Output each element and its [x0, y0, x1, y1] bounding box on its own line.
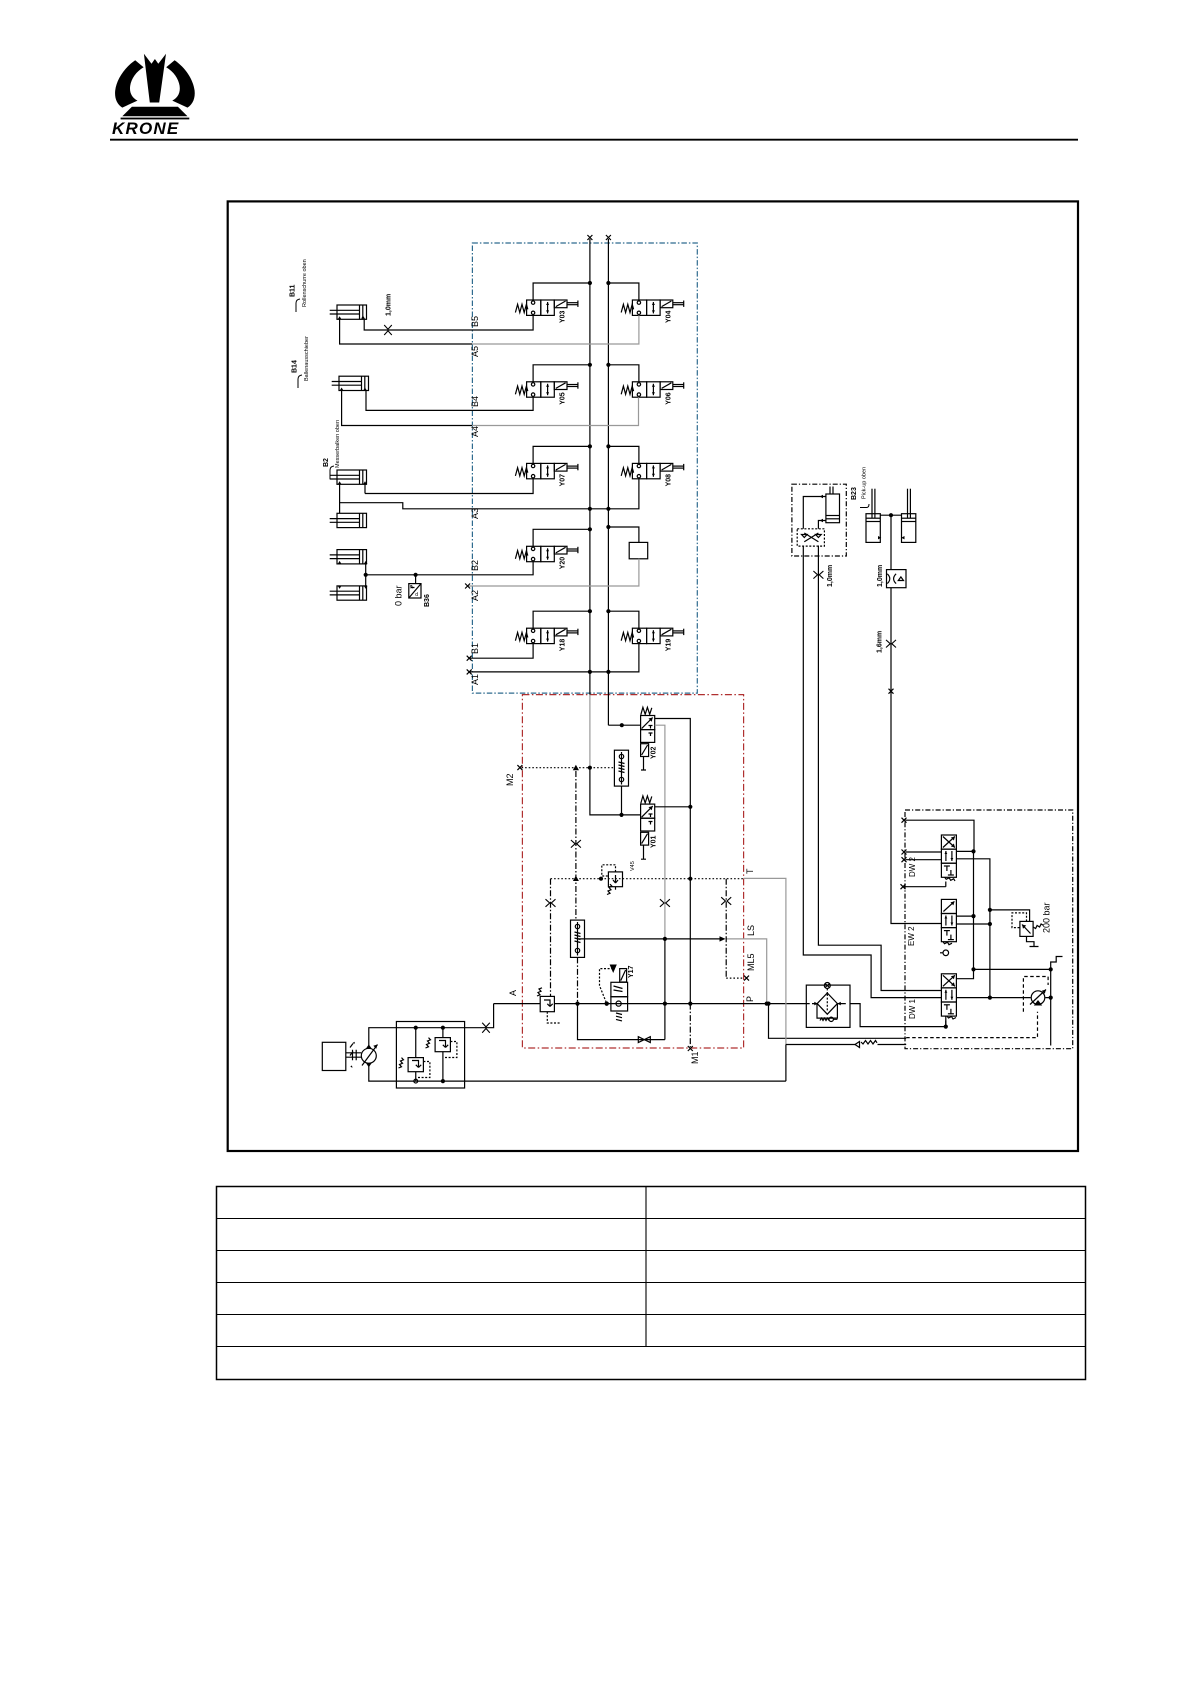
port ML5 (plugged) — [726, 977, 744, 979]
pump (variable displacement) — [361, 1045, 377, 1066]
svg-text:A1: A1 — [470, 674, 480, 685]
svg-text:200 bar: 200 bar — [1042, 902, 1052, 933]
port M1 (dash-dot, plugged) — [689, 1004, 691, 1047]
cylinder B23 (inside dash-dot box) — [826, 487, 840, 523]
relief valve RV2 — [426, 1028, 457, 1081]
orifice on M2 pilot — [571, 840, 581, 848]
svg-text:1,0mm: 1,0mm — [386, 294, 393, 316]
svg-text:Y19: Y19 — [665, 639, 672, 652]
wires B23 cylinder to drop lines — [803, 497, 941, 998]
svg-text:B4: B4 — [470, 396, 480, 407]
DW1 right wires to hand pump / tank — [956, 969, 1051, 1045]
wire A2 (grey) — [468, 559, 639, 586]
black dotted control box right — [905, 810, 1073, 1049]
red dash-dot valve block box — [522, 695, 743, 1048]
port labels on blue box edge — [470, 316, 480, 685]
measuring point on pick-up line — [889, 689, 894, 694]
relief valve RV1 — [399, 1028, 430, 1083]
svg-text:A2: A2 — [470, 590, 480, 601]
wire B2 — [366, 562, 533, 575]
wires knife cylinder pair — [340, 484, 365, 527]
DW2 spring — [945, 877, 955, 886]
svg-text:Y06: Y06 — [665, 392, 672, 405]
svg-text:Y18: Y18 — [560, 639, 567, 652]
cylinder knife bank 2 — [330, 513, 367, 527]
orifice 1,6mm on pick-up line — [886, 640, 896, 648]
svg-text:1,6mm: 1,6mm — [877, 631, 884, 653]
pick-up cylinder right — [902, 489, 916, 543]
LS return drop (black below P) — [769, 1004, 907, 1039]
pressure sensor B36 — [409, 575, 421, 598]
svg-text:Ballenausschieber: Ballenausschieber — [304, 336, 310, 381]
cylinder twine 2 — [330, 586, 367, 600]
relief block box — [396, 1022, 464, 1089]
valve Y06 — [621, 382, 684, 397]
cross check valves in B23 box — [797, 529, 824, 546]
svg-text:B2: B2 — [323, 458, 330, 467]
tank loop with shutoff under P — [578, 1004, 665, 1040]
svg-text:V45: V45 — [630, 861, 636, 871]
DW2 right side wires — [956, 851, 990, 997]
orifice on pump line — [482, 1023, 490, 1033]
shaft coupling — [346, 1044, 362, 1061]
P line into filter and on to DW1 — [850, 1004, 946, 1027]
svg-text:M2: M2 — [505, 773, 515, 786]
orifice B5 1,0mm — [384, 325, 392, 335]
EW2 right wires — [956, 916, 990, 924]
wire Y07 top — [533, 446, 639, 463]
svg-text:M1: M1 — [690, 1051, 700, 1064]
inline check valve on T return — [855, 1041, 877, 1048]
cylinder bale ejector (B4/A4) — [332, 376, 369, 390]
valve Y17 (unloading seat valve) — [600, 965, 628, 1021]
wire Y01 top-right — [655, 806, 691, 808]
wire Y02 top-right to M1 riser — [655, 719, 691, 1004]
svg-text:Y05: Y05 — [560, 392, 567, 405]
svg-text:Y03: Y03 — [560, 310, 567, 323]
wire Y03 top — [533, 283, 639, 300]
blank plate right of Y20 — [629, 542, 648, 558]
B23 dash-dot box — [792, 484, 846, 556]
svg-text:Y17: Y17 — [628, 965, 635, 978]
svg-text:Rollenschurre oben: Rollenschurre oben — [302, 259, 308, 307]
wire A5 (grey to Y04) — [340, 315, 639, 344]
wire A1 — [469, 644, 639, 672]
pump pressure line up — [369, 1004, 494, 1049]
svg-text:B23: B23 — [851, 487, 858, 500]
wire A4 (grey to Y06) — [342, 391, 639, 426]
sensor B2 — [330, 466, 334, 479]
sensor B23 — [860, 504, 869, 508]
svg-text:Y04: Y04 — [665, 310, 672, 323]
svg-text:LS: LS — [746, 925, 756, 936]
svg-text:EW 2: EW 2 — [907, 926, 916, 946]
pilot line T-LS (dash-dot with orifice) — [725, 879, 727, 978]
valve DW2 — [941, 835, 956, 877]
port M2 (plugged, pilot line) — [517, 765, 522, 770]
orifice 1,0mm on left drop — [813, 571, 823, 579]
T return line (grey) with check valve — [744, 878, 907, 1081]
cylinder roller chute (B5/A5) — [330, 305, 367, 319]
outer diagram border — [228, 201, 1078, 1151]
filter F1 (check/orifice cartridge) — [614, 750, 628, 815]
svg-text:A: A — [508, 990, 518, 996]
svg-text:Y02: Y02 — [651, 746, 658, 759]
valve Y20 — [515, 546, 578, 561]
bus2 continuation to Y02 — [608, 724, 640, 726]
KRONE logo crown — [112, 54, 195, 138]
svg-text:d: d — [415, 592, 418, 598]
wire Y18 top — [533, 611, 639, 628]
svg-text:0 bar: 0 bar — [394, 585, 404, 606]
svg-text:Y01: Y01 — [651, 835, 658, 848]
svg-text:Y07: Y07 — [560, 474, 567, 487]
svg-text:B2: B2 — [470, 560, 480, 571]
svg-text:A4: A4 — [470, 426, 480, 437]
svg-text:B5: B5 — [470, 316, 480, 327]
wire Y02 lower-right (grey LS drop) — [655, 725, 665, 1003]
wire pick-up cylinders common — [880, 514, 901, 516]
filter F2 (check/orifice cartridge) — [571, 920, 585, 1004]
pump return line — [369, 1063, 786, 1081]
pilot line M2 down to filter F2 — [575, 771, 577, 920]
svg-text:DW 1: DW 1 — [908, 998, 917, 1019]
valve Y01 (pilot operated seat valve) — [641, 796, 655, 859]
blue dash-dot manifold box — [472, 243, 697, 693]
svg-text:A3: A3 — [470, 508, 480, 519]
wire Y05 top — [533, 365, 639, 382]
wire B4 — [366, 391, 533, 411]
valve Y19 — [621, 628, 684, 643]
svg-text:KRONE: KRONE — [112, 119, 179, 138]
valve DW1 — [941, 974, 956, 1016]
svg-text:B36: B36 — [424, 594, 431, 607]
wire B1 — [469, 644, 533, 659]
bus1 continuation (grey then black) to Y01 — [590, 695, 641, 815]
valve Y05 — [515, 382, 578, 397]
EW2 spring + manual override — [940, 942, 952, 956]
header rule — [110, 139, 1078, 141]
P line through block — [494, 1003, 810, 1005]
svg-text:A5: A5 — [470, 346, 480, 357]
hand pump drain (dashed) — [906, 977, 1048, 1038]
pick-up drop line with bypass check — [887, 515, 942, 923]
wire Y20 top — [533, 527, 639, 546]
LS line — [578, 939, 767, 1004]
plug X bus1 top — [587, 235, 592, 240]
wire A3 — [340, 479, 639, 509]
bus line P2 — [607, 239, 609, 725]
svg-text:n: n — [410, 585, 413, 591]
svg-text:B1: B1 — [470, 643, 480, 654]
svg-text:Messerbalken oben: Messerbalken oben — [335, 420, 341, 468]
wire B5 — [364, 315, 533, 330]
cylinder knife bank 1 — [330, 470, 367, 484]
pilot line to check valve CV1 — [550, 879, 552, 997]
plug X bus2 top — [606, 235, 611, 240]
svg-text:ML5: ML5 — [746, 953, 756, 971]
tank connection symbol — [1051, 957, 1063, 970]
valve EW2 — [941, 899, 956, 941]
hand pump — [1030, 990, 1046, 1005]
orifice on Y02 drain line — [660, 899, 670, 907]
svg-text:B11: B11 — [290, 284, 297, 297]
DW2 work port stubs (plugged) — [904, 820, 974, 887]
svg-text:B14: B14 — [292, 360, 299, 373]
sensor B14 — [298, 375, 302, 388]
valve Y18 — [515, 628, 578, 643]
200 bar relief valve — [990, 910, 1043, 947]
svg-text:Pick-up oben: Pick-up oben — [862, 467, 868, 499]
svg-text:T: T — [745, 868, 755, 874]
relief valve V45 — [602, 865, 623, 895]
DW1 spring — [946, 1016, 956, 1027]
electric motor M — [322, 1042, 346, 1070]
valve Y07 — [515, 463, 578, 478]
check valve CV1 on P — [537, 988, 560, 1023]
svg-text:Y08: Y08 — [665, 474, 672, 487]
wire Y07 bottom to knife cylinders — [365, 479, 533, 494]
valve Y02 (pilot operated seat valve) — [641, 707, 655, 770]
svg-text:P: P — [745, 996, 755, 1002]
T pilot line (dotted) through V45 — [551, 878, 744, 880]
sensor B11 — [296, 299, 300, 312]
svg-text:Y20: Y20 — [560, 557, 567, 570]
valve Y03 — [515, 300, 578, 315]
bus line P1 — [589, 239, 591, 695]
svg-text:1,0mm: 1,0mm — [877, 565, 884, 587]
cylinder twine 1 (B2/A2) — [330, 550, 367, 564]
valve Y08 — [621, 463, 684, 478]
filter with bypass — [806, 983, 850, 1028]
pick-up cylinder left — [866, 489, 880, 543]
valve Y04 — [621, 300, 684, 315]
svg-text:1,0mm: 1,0mm — [827, 565, 834, 587]
